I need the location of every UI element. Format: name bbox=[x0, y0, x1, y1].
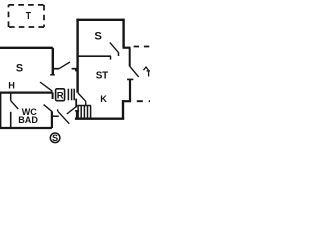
label T right edge cropped bbox=[147, 71, 151, 77]
jamb tick left S doorway bbox=[50, 74, 55, 76]
door leaf balcony bbox=[130, 66, 139, 77]
door leaf central end seg bbox=[85, 101, 87, 105]
wall entry jamb vertical bbox=[76, 111, 78, 119]
wall hall to living room ST bbox=[53, 68, 59, 70]
jamb tick end of wall under S bbox=[110, 56, 112, 59]
door leaf WC stub bbox=[10, 93, 12, 100]
svg-text:H: H bbox=[8, 81, 15, 91]
refuse chute box R bbox=[56, 89, 65, 101]
door leaf WC swing bbox=[11, 101, 19, 109]
jamb tick entry leaf bbox=[57, 109, 59, 111]
wall kitchen right step bbox=[123, 100, 131, 102]
wall jog top-right bbox=[123, 47, 131, 49]
entry jamb cap kitchen side bbox=[75, 110, 79, 112]
svg-text:ST: ST bbox=[96, 70, 108, 81]
wall stub kitchen doorway bbox=[75, 99, 77, 108]
wall right of left room S bbox=[52, 48, 54, 75]
door stop tick hall doorway bbox=[75, 69, 77, 72]
wall bathroom right bbox=[51, 111, 53, 128]
door leaf bedroom S tail bbox=[118, 52, 120, 56]
svg-text:T: T bbox=[26, 11, 32, 22]
dashed balcony line mid right bbox=[137, 100, 150, 102]
wall right lower bbox=[129, 79, 131, 101]
wall top exterior bbox=[76, 19, 123, 21]
dashed balcony line upper right bbox=[134, 46, 150, 48]
wall bottom middle bbox=[75, 117, 124, 119]
door leaf central doorway bbox=[78, 93, 86, 101]
door leaf entry bbox=[58, 111, 70, 124]
wall under bedroom S bbox=[78, 55, 111, 57]
wall bathroom partition bbox=[10, 112, 12, 128]
caret mark terrace right bbox=[144, 67, 149, 70]
svg-text:S: S bbox=[16, 62, 23, 74]
wall top left exterior bbox=[0, 47, 53, 49]
svg-text:S: S bbox=[94, 31, 102, 43]
wall hall bottom bbox=[0, 91, 53, 93]
jamb below hall wall end bbox=[52, 93, 54, 99]
door leaf kitchen swing bbox=[67, 107, 77, 114]
terrace dashed rectangle T bbox=[9, 5, 45, 27]
wall kitchen right vertical bbox=[122, 100, 124, 119]
svg-text:S: S bbox=[52, 133, 58, 143]
door leaf left room S bbox=[40, 82, 52, 91]
threshold tick entry bbox=[52, 115, 59, 117]
svg-text:BAD: BAD bbox=[18, 115, 38, 125]
wall right upper bbox=[129, 48, 131, 67]
wall central vertical bbox=[76, 19, 78, 93]
radiator hatch upper bbox=[68, 89, 74, 101]
entrance circle S bbox=[50, 133, 60, 143]
door leaf bedroom S bbox=[110, 42, 119, 52]
door jamb cap below balcony door bbox=[127, 78, 133, 80]
door leaf bathroom bbox=[44, 105, 52, 112]
wall bottom left bbox=[0, 127, 52, 129]
svg-text:K: K bbox=[100, 94, 107, 104]
door leaf hall-ST bbox=[59, 62, 70, 69]
radiator hatch lower bbox=[77, 106, 91, 119]
wall left edge bathroom bbox=[0, 93, 2, 128]
jamb hall doorway right bbox=[72, 68, 78, 70]
wall right of bedroom S bbox=[122, 19, 124, 48]
svg-text:R: R bbox=[57, 90, 64, 101]
